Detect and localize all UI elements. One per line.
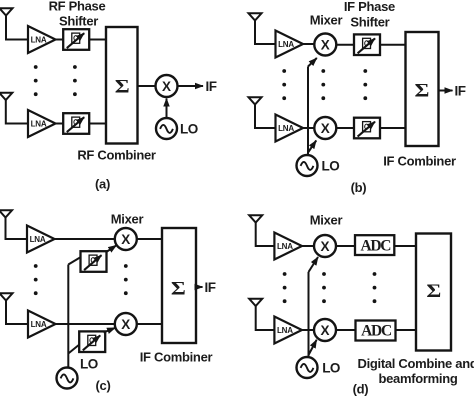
label Mixer (b) [310,13,343,28]
ellipsis dots (b, mixer column) [321,69,325,100]
IF label (b) [455,84,466,99]
ellipsis dots (a, antenna column) [34,65,38,96]
wire phase shifter to combiner (b, bottom) [380,127,406,129]
LO label (d) [322,361,340,376]
wire antenna C2 to LNA [6,301,28,325]
wire ADC to combiner (d, top) [394,245,416,247]
LO feed line vertical (d) [308,272,310,357]
wire antenna D2 to LNA [256,306,275,330]
RF combiner sigma block (a) [106,27,138,144]
LO arrow to mixer 2 (b) [308,141,316,153]
wire phase shifter to combiner (b, top) [380,44,406,46]
wire antenna A2 to LNA [6,100,28,124]
wire mixer to phase shifter (b, bottom) [336,127,354,129]
LO label (b) [322,159,340,174]
wire LNA to mixer (d, bottom) [302,329,314,331]
IF combiner sigma block (b) [406,32,439,146]
svg-text:Mixer: Mixer [111,212,144,227]
svg-text:(d): (d) [353,382,369,397]
wire ADC to combiner (d, bottom) [396,329,417,331]
wire mixer to combiner (c, bottom) [137,323,162,325]
IF phase shifter (b, bottom) [354,118,380,139]
mixer (b, top) [314,34,336,56]
label Mixer (d) [310,213,343,228]
RF phase shifter (a, top) [63,29,89,50]
wire mixer to phase shifter (b, top) [336,44,354,46]
label IF Combiner (c) [140,350,213,365]
amplifier LNA (b, top) [276,31,304,58]
wire antenna B1 to LNA [255,21,276,45]
ADC converter (d, bottom) [356,321,396,341]
wire antenna C1 to LNA [6,218,28,240]
wire phase shifter to combiner (a, top) [89,39,106,41]
wire antenna D1 to LNA [256,223,275,247]
caption (a) [95,177,110,192]
LO label (a) [180,122,198,137]
LO oscillator (b) [297,155,318,176]
ellipsis dots (c, mixer column) [124,264,128,295]
antenna B1 [249,13,262,20]
mixer (c, top) [115,228,137,250]
wire antenna A1 to LNA [6,16,28,40]
label RF Phase Shifter [49,0,106,29]
wire LNA to mixer (b, bottom) [303,127,314,129]
caption (c) [96,378,111,393]
svg-text:IF Combiner: IF Combiner [383,154,456,169]
amplifier LNA (d, top) [274,233,302,260]
mixer (c, bottom) [115,313,137,335]
svg-text:ADC: ADC [360,237,391,254]
LO oscillator (a) [156,118,177,139]
wire combiner to mixer (a) [138,85,156,87]
LO arrow to mixer (a) [166,99,168,118]
arrow phase shifter to mixer (c, bottom) [104,328,116,333]
LO label (c) [80,357,98,372]
digital combiner sigma block (d) [416,234,451,351]
svg-text:Σ: Σ [426,280,441,302]
LO wire into phase shifter (c, bottom) [68,344,80,354]
IF label (a) [206,79,217,94]
svg-text:Shifter: Shifter [350,15,389,30]
svg-text:Σ: Σ [115,75,130,97]
IF output arrow (a) [178,85,204,87]
mixer (a) [156,75,178,97]
svg-text:IF: IF [455,84,466,99]
LO feed line vertical (b) [307,67,309,155]
antenna D2 [249,299,262,306]
amplifier LNA (c, bottom) [28,311,56,338]
svg-text:LO: LO [322,159,340,174]
svg-text:Mixer: Mixer [310,213,343,228]
svg-text:IF: IF [206,79,217,94]
svg-text:Mixer: Mixer [310,13,343,28]
RF phase shifter (a, bottom) [63,113,89,134]
label IF Phase Shifter (b) [344,0,395,30]
svg-text:LO: LO [322,361,340,376]
ellipsis dots (b, shifter column) [363,69,367,100]
antenna D1 [249,215,262,222]
ellipsis dots (d, LNA column) [283,272,287,303]
svg-text:(a): (a) [95,177,110,192]
antenna A2 [0,93,12,100]
wire LNA to phase shifter (a, top) [56,39,64,41]
wire LNA to mixer (b, top) [303,43,314,45]
svg-text:Digital Combine and: Digital Combine and [358,356,474,371]
label Digital Combine and beamforming [358,356,474,386]
amplifier LNA (d, bottom) [274,317,302,344]
ellipsis dots (d, mixer column) [322,272,326,303]
svg-text:ADC: ADC [361,323,392,340]
caption (b) [351,180,367,195]
antenna C1 [0,210,12,217]
mixer (b, bottom) [314,117,336,139]
IF combiner sigma block (c) [162,228,196,343]
LO oscillator (d) [297,357,318,378]
LO phase shifter (c, bottom) [79,331,105,352]
IF phase shifter (b, top) [354,34,380,55]
antenna A1 [0,8,13,15]
LO phase shifter (c, top) [81,251,107,272]
ellipsis dots (d, ADC column) [373,272,377,303]
svg-text:IF Combiner: IF Combiner [140,350,213,365]
IF label (c) [205,280,216,295]
amplifier LNA (c, top) [27,226,55,253]
wire LNA to mixer (c, bottom) [56,323,115,325]
label IF Combiner (b) [383,154,456,169]
amplifier LNA (a, top) [28,26,56,53]
caption (d) [353,382,369,397]
LO arrow to mixer 1 (b) [308,58,317,67]
wire LNA to phase shifter (a, bottom) [56,123,64,125]
wire antenna B2 to LNA [255,105,276,129]
LO feed line vertical (c) [67,265,69,368]
mixer (d, bottom) [314,319,336,341]
IF output arrow (b) [439,90,453,92]
IF output arrow (c) [196,286,203,288]
wire mixer to ADC (d, bottom) [336,329,356,331]
svg-text:Σ: Σ [415,79,430,101]
svg-text:IF: IF [205,280,216,295]
ellipsis dots (b, LNA column) [282,69,286,100]
wire phase shifter to combiner (a, bottom) [89,123,106,125]
wire mixer to ADC (d, top) [336,245,355,247]
wire LNA to mixer (d, top) [302,245,314,247]
antenna C2 [0,293,13,300]
LO arrow to mixer 2 (d) [309,340,317,355]
ADC converter (d, top) [355,235,394,255]
svg-text:RF Combiner: RF Combiner [77,148,156,163]
antenna B2 [249,97,262,104]
label RF Combiner [77,148,156,163]
arrow phase shifter to mixer (c, top) [106,245,117,252]
mixer (d, top) [314,235,336,257]
svg-text:(c): (c) [96,378,111,393]
wire mixer to combiner (c, top) [137,238,162,240]
svg-text:LO: LO [180,122,198,137]
svg-text:beamforming: beamforming [378,371,457,386]
svg-text:Σ: Σ [171,277,186,299]
svg-text:(b): (b) [351,180,367,195]
amplifier LNA (b, bottom) [276,115,304,142]
LO wire into phase shifter (c, top) [68,258,80,265]
LO oscillator (c) [57,368,78,389]
wire LNA to mixer (c, top) [55,238,115,240]
label Mixer (c) [111,212,144,227]
svg-text:LO: LO [80,357,98,372]
LO arrow to mixer 1 (d) [309,257,319,272]
amplifier LNA (a, bottom) [28,110,56,137]
svg-text:IF Phase: IF Phase [344,0,395,14]
svg-text:RF Phase: RF Phase [49,0,106,14]
ellipsis dots (c, antenna column) [34,264,38,295]
svg-text:Shifter: Shifter [59,14,98,29]
ellipsis dots (a, shifter column) [73,65,77,96]
